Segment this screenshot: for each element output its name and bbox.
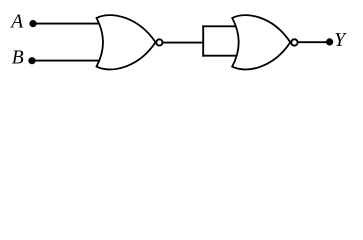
svg-text:Y: Y: [334, 30, 347, 51]
svg-text:B: B: [12, 47, 24, 68]
svg-text:A: A: [9, 11, 23, 32]
